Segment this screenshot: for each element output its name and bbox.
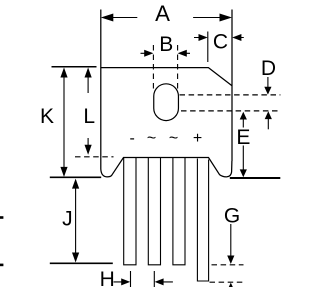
svg-text:L: L: [83, 105, 95, 128]
svg-text:J: J: [62, 208, 73, 231]
svg-text:K: K: [40, 105, 54, 128]
svg-text:B: B: [159, 33, 173, 56]
svg-text:-: -: [130, 130, 135, 147]
svg-text:G: G: [224, 204, 240, 227]
svg-text:C: C: [213, 30, 228, 53]
svg-text:E: E: [236, 126, 250, 149]
svg-text:~: ~: [169, 130, 178, 147]
svg-text:+: +: [193, 130, 202, 147]
svg-text:H: H: [100, 268, 115, 287]
svg-text:~: ~: [147, 130, 156, 147]
svg-text:A: A: [155, 1, 170, 26]
svg-text:D: D: [261, 57, 276, 80]
